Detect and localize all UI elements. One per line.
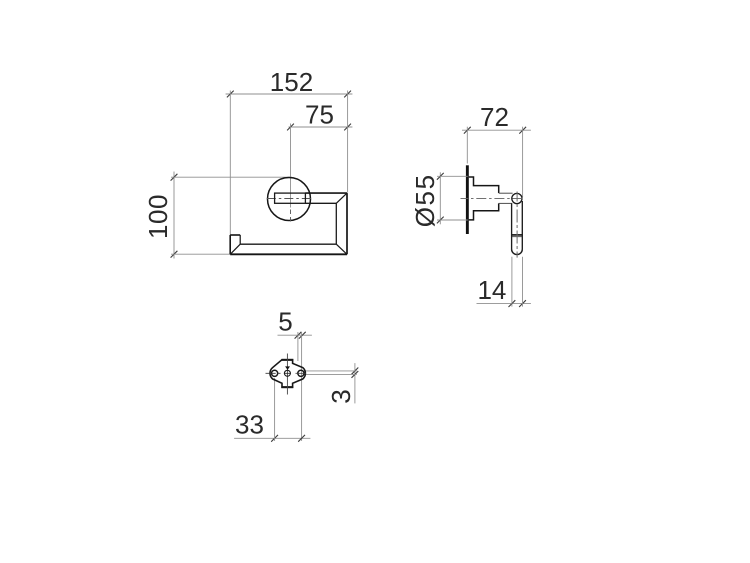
left hole centerline [266, 372, 281, 374]
extension 72 left [466, 127, 468, 164]
extension 5 right / 33 right (hole centerline) [301, 332, 303, 441]
svg-text:152: 152 [270, 67, 313, 97]
holder bar joint second line [512, 236, 523, 238]
tick 14 left [509, 300, 516, 307]
extension D55 bottom [437, 219, 468, 221]
holder bar right edge [521, 201, 523, 249]
tick 100 bottom [171, 251, 178, 258]
holder bar joint line [512, 234, 523, 236]
extension 14 left [511, 257, 513, 307]
dim line 3 [354, 363, 356, 403]
tick D55 bottom [437, 217, 444, 224]
svg-text:33: 33 [235, 410, 264, 440]
svg-text:72: 72 [480, 102, 509, 132]
tick 152 right [344, 91, 351, 98]
arm top edge [305, 192, 347, 194]
extension 3 bottom [305, 373, 357, 375]
holder bar rounded cap [512, 249, 523, 254]
bottom bar outer bottom edge [230, 253, 347, 255]
svg-text:14: 14 [477, 275, 506, 305]
bracket top tab edge [281, 359, 293, 361]
extension line right of 152/75 [347, 91, 349, 193]
right outer vertical [346, 193, 348, 254]
svg-text:5: 5 [278, 307, 292, 337]
tick 33 left [271, 435, 278, 442]
horizontal centerline through rosette [267, 198, 314, 200]
vertical centerline below rosette center [290, 210, 292, 223]
tick 100 top [171, 174, 178, 181]
holder bar vertical centerline [516, 192, 518, 258]
svg-text:100: 100 [143, 194, 173, 239]
tick D55 top [437, 173, 444, 180]
wall plate (thick bar) [466, 165, 469, 234]
dim line 75 [289, 126, 353, 128]
extension 3 top [302, 370, 357, 372]
tick 72 right [519, 127, 526, 134]
tick 3 top [352, 368, 359, 375]
center screw circle [284, 370, 290, 376]
dim line 14 [477, 303, 531, 305]
side view horizontal centerline [461, 197, 525, 199]
bottom left miter [230, 244, 240, 254]
dim line 33 [234, 437, 310, 439]
rosette profile (stepped outline) [469, 177, 499, 193]
arm right miter [336, 193, 347, 203]
svg-text:75: 75 [305, 100, 334, 130]
extension D55 top [437, 175, 468, 177]
tick 5 right [299, 332, 306, 339]
pivot circle [512, 193, 522, 203]
svg-text:Ø55: Ø55 [410, 173, 440, 227]
tick 5 left [295, 332, 302, 339]
center screw horizontal tick [284, 372, 291, 374]
tick 33 right [298, 435, 305, 442]
extension line 75 left / circle vertical centerline [290, 124, 292, 208]
tick 14 right [519, 300, 526, 307]
tick 3 bottom [352, 371, 359, 378]
dim line 100 [173, 172, 175, 259]
svg-text:3: 3 [326, 389, 356, 403]
bottom right miter [336, 244, 347, 254]
extension 33 left [274, 378, 276, 441]
rosette circle [268, 178, 311, 221]
extension 14 right [522, 257, 524, 307]
arm cylinder bottom edge [499, 202, 513, 204]
notch right vertical [239, 235, 241, 244]
right hole centerline [296, 372, 307, 374]
post rectangle through rosette [275, 193, 306, 203]
bottom bar inner top edge [240, 243, 336, 245]
bracket vertical centerline [286, 354, 288, 395]
extension line 100 top [171, 176, 292, 178]
tick 75 right [344, 124, 351, 131]
extension line left of 152 [229, 91, 231, 236]
extension 72 right down to pivot [522, 127, 524, 197]
holder bar left edge [511, 203, 513, 249]
dim line 72 [462, 129, 531, 131]
right inner vertical [335, 203, 337, 244]
filled marker above center [285, 366, 290, 370]
tick 152 left [227, 91, 234, 98]
right screw hole [298, 370, 304, 376]
left end outer vertical [229, 235, 231, 254]
arm cylinder top edge [499, 192, 513, 194]
extension line 100 bottom [171, 253, 230, 255]
dim line D55 [439, 172, 441, 224]
arm bottom edge [305, 202, 336, 204]
bracket outline [270, 360, 305, 388]
dim line 5 [278, 334, 312, 336]
tick 72 left [464, 127, 471, 134]
bracket bottom tab edge [281, 386, 293, 388]
dim line 152 [226, 93, 353, 95]
notch top edge [230, 234, 240, 236]
extension 5 left [297, 332, 299, 361]
left screw hole [272, 370, 278, 376]
tick 75 left [287, 124, 294, 131]
